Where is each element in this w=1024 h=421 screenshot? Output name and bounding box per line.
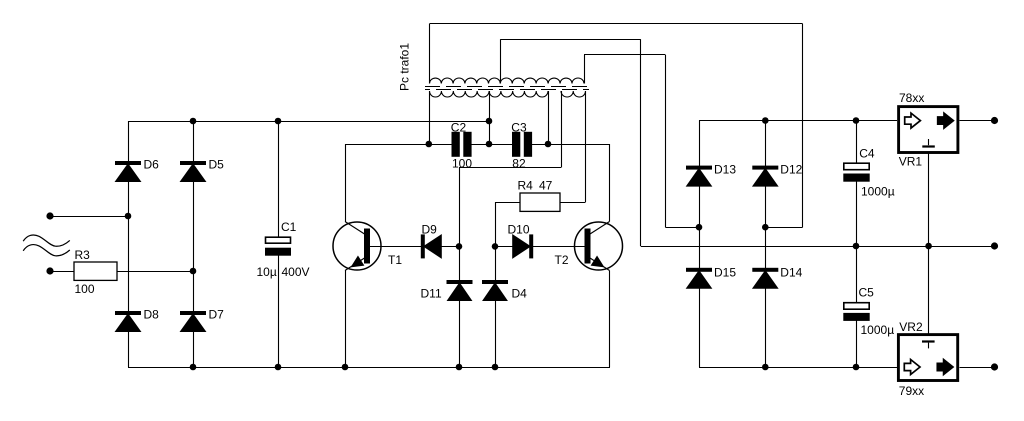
svg-text:82: 82 [512, 156, 526, 170]
svg-text:1000µ: 1000µ [861, 185, 895, 199]
svg-text:D15: D15 [714, 266, 736, 280]
svg-text:D12: D12 [780, 162, 802, 176]
svg-text:T2: T2 [555, 253, 569, 267]
svg-text:D14: D14 [780, 266, 802, 280]
svg-text:C1: C1 [281, 220, 297, 234]
svg-text:T1: T1 [388, 253, 402, 267]
svg-text:100: 100 [452, 156, 472, 170]
svg-text:C3: C3 [511, 120, 527, 134]
svg-text:1000µ: 1000µ [861, 323, 895, 337]
svg-text:R3: R3 [75, 248, 91, 262]
svg-text:79xx: 79xx [899, 384, 924, 398]
svg-text:VR2: VR2 [899, 320, 923, 334]
svg-text:78xx: 78xx [899, 91, 924, 105]
svg-text:47: 47 [539, 179, 553, 193]
svg-text:D5: D5 [209, 158, 225, 172]
svg-text:D6: D6 [144, 158, 160, 172]
svg-text:C4: C4 [859, 146, 875, 160]
svg-text:D8: D8 [144, 308, 160, 322]
svg-text:100: 100 [75, 282, 95, 296]
svg-text:D10: D10 [508, 223, 530, 237]
svg-text:D4: D4 [512, 286, 528, 300]
svg-text:C2: C2 [451, 120, 467, 134]
svg-text:VR1: VR1 [899, 155, 923, 169]
svg-text:D7: D7 [209, 308, 225, 322]
svg-text:D11: D11 [421, 286, 442, 300]
svg-text:R4: R4 [518, 179, 534, 193]
svg-text:Pc trafo1: Pc trafo1 [398, 43, 412, 91]
svg-text:D13: D13 [714, 162, 736, 176]
svg-text:C5: C5 [859, 285, 875, 299]
svg-text:400V: 400V [282, 265, 310, 279]
svg-text:10µ: 10µ [257, 265, 277, 279]
svg-text:D9: D9 [422, 223, 438, 237]
